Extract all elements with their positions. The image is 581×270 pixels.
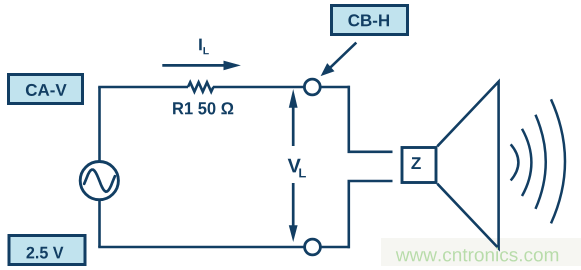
speaker cone (437, 82, 498, 249)
label CB-H (332, 6, 408, 35)
current arrow IL (162, 61, 241, 71)
node top (probe CB-H) (304, 79, 320, 95)
sound wave arc 1 (511, 144, 519, 180)
wire bottom stub to speaker (348, 180, 393, 183)
watermark text (396, 248, 558, 262)
wire right-top vertical (347, 86, 350, 152)
watermark band (381, 238, 581, 266)
label 2.5 V (9, 236, 85, 265)
wire bottom horizontal (98, 246, 350, 249)
node bottom (305, 239, 321, 255)
wire top stub to speaker (348, 151, 393, 154)
sound wave arc 3 (536, 115, 546, 209)
sound wave arc 2 (522, 129, 531, 196)
wire top horizontal (98, 86, 188, 89)
speaker impedance Z box (402, 148, 436, 183)
label VL (288, 159, 306, 178)
sound wave arc 4 (551, 99, 565, 223)
wire top: left corner to right corner with resistor gap (98, 82, 392, 248)
voltage arrow VL (289, 89, 298, 242)
resistor R1 (188, 82, 213, 91)
wire left vertical (98, 87, 101, 247)
AC source V1 (80, 162, 118, 200)
wire right-bottom vertical (347, 181, 350, 248)
label R1 50 Ohm (173, 102, 233, 114)
label IL (199, 39, 209, 55)
arrow CB-H to node (321, 43, 357, 77)
label CA-V (9, 75, 83, 104)
